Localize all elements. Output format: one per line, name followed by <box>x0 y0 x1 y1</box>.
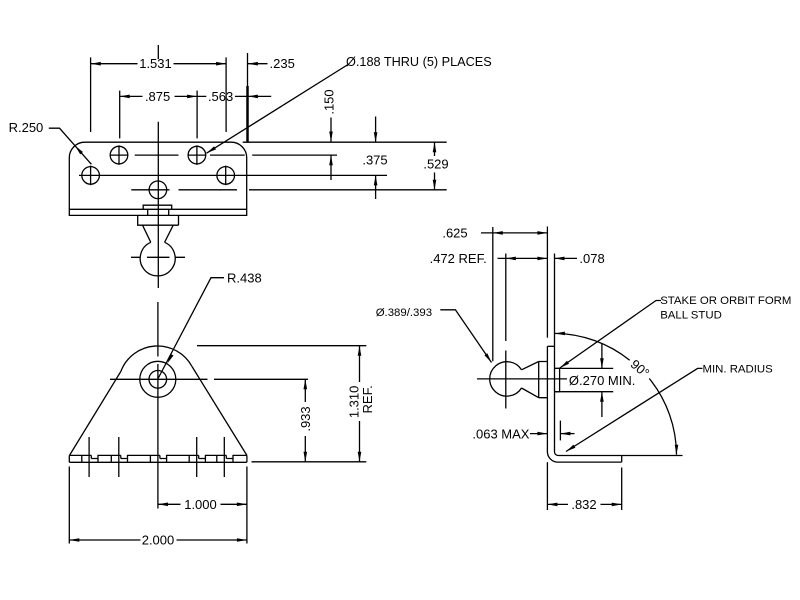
svg-text:Ø.270 MIN.: Ø.270 MIN. <box>569 373 635 388</box>
hole H1 vertical centerline <box>118 145 120 165</box>
arrow .875 right / .563 left <box>187 95 197 99</box>
arrow Ø.270 lower (up) <box>600 392 604 402</box>
svg-text:.529: .529 <box>423 157 448 172</box>
top-row extension line to .150 dimension (right of bracket) <box>210 154 337 156</box>
arrow 1.531 left <box>91 62 101 66</box>
ball horizontal centerline (dash-dot segments) <box>131 256 185 258</box>
front view main vertical centerline (also 1.000 extension) <box>157 302 159 509</box>
svg-text:.933: .933 <box>298 406 313 431</box>
svg-text:.563: .563 <box>208 89 233 104</box>
bottom-row extension line to .529 dimension <box>179 189 447 191</box>
hole H4 (mid row right) <box>217 167 235 185</box>
front view right slant edge <box>192 367 247 456</box>
hole H3 vertical centerline <box>90 166 92 186</box>
hole H5 horizontal centerline <box>131 189 169 191</box>
front view base plate <box>69 455 247 462</box>
svg-text:1.531: 1.531 <box>139 56 172 71</box>
L-bracket inner face (right) with bend <box>555 346 622 455</box>
dimension line .933 (vertical, text gap) <box>304 379 306 461</box>
Ø.270 upper extension line <box>555 367 614 369</box>
extension line bracket right edge (lower bold part) <box>246 86 249 142</box>
pivot hole horizontal centerline / .933 extension line <box>110 378 308 380</box>
arrow 90deg arc bottom (pointing down) <box>675 445 679 455</box>
svg-text:2.000: 2.000 <box>142 533 175 548</box>
slot S2 in base plate <box>111 455 127 462</box>
ball vertical centerline, side view <box>505 351 507 409</box>
extension line ball center (.472 REF) <box>505 254 507 342</box>
hole H1 horizontal centerline <box>110 154 129 156</box>
L-bracket outer face (left) with bend <box>547 346 621 462</box>
arrow .235 (outside, pointing left) <box>248 62 258 66</box>
slot S5 in base plate <box>217 455 233 462</box>
arrow .063 MAX right (pointing left at tick) <box>560 432 570 436</box>
arrow .375 upper (pointing down) <box>374 132 378 142</box>
svg-text:Ø.188 THRU (5) PLACES: Ø.188 THRU (5) PLACES <box>346 55 492 69</box>
hole centerline through slot 5 <box>223 437 225 477</box>
top view dimension texts <box>9 55 492 172</box>
arrow .933 top (up) <box>304 379 308 389</box>
svg-text:.063 MAX: .063 MAX <box>472 426 529 441</box>
arrow .933 bottom (down) <box>304 452 308 462</box>
arrow .063 MAX left (pointing right at plate) <box>537 432 547 436</box>
extension line from hole H4 up to 1.531/.235 dims <box>225 57 227 132</box>
slot S4 in base plate <box>189 455 205 462</box>
dimension line 1.531 <box>91 63 226 65</box>
leader line for Ø.389/.393 <box>440 310 491 363</box>
arrow of R.250 leader at corner radius <box>75 146 83 155</box>
ball horizontal centerline, side view <box>477 378 567 380</box>
arrow .875 left <box>120 95 130 99</box>
centerline stub above 1.531 dimension <box>157 45 159 59</box>
base bottom extension line (.933 / 1.310) <box>252 461 367 463</box>
Ø.270 dimension arrow tails <box>601 344 603 417</box>
leader line for .063 MAX <box>530 433 547 435</box>
svg-text:STAKE OR ORBIT FORM: STAKE OR ORBIT FORM <box>660 295 791 307</box>
hole H2 vertical centerline <box>196 145 198 165</box>
ball (sphere) of stud, top view fragment <box>140 242 175 276</box>
ball stud tapered neck cone, side view <box>522 362 539 398</box>
leader line for R.250 <box>49 128 92 164</box>
dimension line .832 (text gap) <box>547 503 621 505</box>
ball stud washer flange, side view <box>539 362 548 398</box>
arrow of Ø.389/.393 leader <box>484 353 491 362</box>
L-bracket top end cap <box>547 345 554 347</box>
arrow .529 top (pointing up) <box>433 142 437 152</box>
ball (sphere) of stud, side view <box>490 362 522 396</box>
leader line for R.438 <box>158 278 224 379</box>
front view left slant edge <box>70 372 121 456</box>
svg-text:R.438: R.438 <box>227 270 262 285</box>
dimension line .235 tail <box>248 63 268 65</box>
inner bottom face extension (for 90 deg angle dim) <box>622 455 683 457</box>
hole H5 (bottom center) <box>149 181 167 199</box>
.150 dimension arrow tails <box>330 118 332 181</box>
svg-text:.235: .235 <box>270 56 295 71</box>
arrow .150 upper (pointing down) <box>329 132 333 142</box>
dimension line .563 segments <box>197 95 271 97</box>
extension line plate outer face up (.625/.078) <box>546 227 548 338</box>
dimension line 2.000 (text gap) <box>69 539 247 541</box>
ball stud head (stub above flange, top view side fragment) <box>143 205 172 209</box>
svg-text:.078: .078 <box>579 251 604 266</box>
svg-text:.625: .625 <box>442 225 467 240</box>
arrow .832 right <box>612 503 622 507</box>
arrow .832 left <box>547 503 557 507</box>
dimension line .078 tail <box>555 257 578 259</box>
arrow 1.531 right <box>216 62 226 66</box>
arrow .472 left <box>506 257 516 261</box>
svg-text:.875: .875 <box>145 89 170 104</box>
extension line from bracket right edge up to .235/.563 dims (upper thin part) <box>247 53 249 86</box>
bracket top edge extension line to right (.150/.375/.529 dims) <box>243 141 447 143</box>
hole H3 (mid row left) <box>82 167 100 185</box>
hole H2 horizontal centerline <box>188 154 207 156</box>
.063 MAX tick line at bend <box>559 421 561 441</box>
extension lines below base for 2.000 <box>69 467 247 544</box>
.375 dimension arrow tails <box>375 117 377 200</box>
arrow .150 lower (pointing up) <box>329 155 333 165</box>
slot S1 in base plate <box>82 455 98 462</box>
svg-text:1.000: 1.000 <box>184 497 217 512</box>
arrow 2.000 right <box>237 538 247 542</box>
hole H2 (top row right) <box>188 146 206 164</box>
pivot hole outer boss circle <box>140 361 176 397</box>
extension line plate inner face up (.078) <box>554 254 556 347</box>
ball stud washer flange <box>138 215 179 225</box>
arrow 1.000 right <box>237 503 247 507</box>
svg-text:MIN. RADIUS: MIN. RADIUS <box>703 364 774 376</box>
arrow 2.000 left <box>69 538 79 542</box>
svg-text:.375: .375 <box>362 152 387 167</box>
hole centerline through slot 1 <box>88 437 90 477</box>
bracket body outline (top view, rounded top corners) <box>69 142 246 215</box>
svg-text:R.250: R.250 <box>9 120 44 135</box>
svg-text:Ø.389/.393: Ø.389/.393 <box>376 307 432 319</box>
hole H1 (top row left) <box>110 146 128 164</box>
ball stud tapered neck cone <box>143 225 174 242</box>
arrow 1.310 bottom (down) <box>358 452 362 462</box>
arrow of Ø.188 leader at hole H2 <box>207 146 217 153</box>
arrow .529 bottom (pointing down) <box>433 180 437 190</box>
svg-text:REF.: REF. <box>360 385 375 413</box>
hole H4 vertical centerline <box>225 166 227 186</box>
arrow Ø.270 upper (down) <box>600 358 604 368</box>
.063 MAX right arrow tail <box>560 433 574 435</box>
svg-text:.150: .150 <box>322 89 337 114</box>
arrow .472 right / .078 left <box>537 257 547 261</box>
slot S3 in base plate <box>150 455 166 462</box>
staked stud end through plate <box>555 368 560 391</box>
90 degree angle dimension arc (gap at text) <box>555 333 677 454</box>
leader line for MIN. RADIUS <box>566 368 703 451</box>
apex top extension line (1.310 REF) <box>197 345 366 347</box>
hole centerline through slot 2 <box>118 437 120 477</box>
extension line from hole H3 up to 1.531 dim <box>90 57 92 132</box>
arrow .563 right (outside, pointing left) <box>248 95 258 99</box>
arrow .625 right <box>537 231 547 235</box>
extension line ball left edge (.625) <box>492 227 494 361</box>
front view apex arc (R.438) <box>121 346 192 372</box>
arrow of STAKE leader <box>560 361 569 368</box>
ball stud shank through flange <box>148 209 169 215</box>
dimension line 1.000 (text gap) <box>158 503 247 505</box>
mid-row centerline / extension line through H3 and H4 to .375 dimension <box>79 174 387 176</box>
leader line for STAKE OR ORBIT FORM BALL STUD <box>560 301 661 369</box>
arrow .625 left <box>493 231 503 235</box>
arrow .078 right (outside, pointing left) <box>555 257 565 261</box>
extension line from hole H2 up to .875/.563 dims <box>196 91 198 139</box>
top-row centerline segment between H1 and H2 <box>135 154 179 156</box>
arrow 1.000 left <box>158 503 168 507</box>
pivot hole (Ø.188) <box>149 371 167 389</box>
arrow 90deg arc top (pointing left) <box>555 332 565 336</box>
main vertical centerline of top view <box>157 122 159 288</box>
leader line for Ø.188 THRU (5) PLACES <box>207 65 349 154</box>
arrow of R.438 leader <box>167 354 173 364</box>
dimension line 1.310 REF (vertical, text gap) <box>359 346 361 462</box>
dimension line .625 <box>481 232 547 234</box>
arrow .375 lower (pointing up) <box>374 175 378 185</box>
arrow of MIN. RADIUS leader <box>566 445 575 452</box>
svg-text:.832: .832 <box>571 497 596 512</box>
svg-text:BALL STUD: BALL STUD <box>660 310 722 322</box>
extension line from hole H1 up to .875 dim <box>119 91 121 139</box>
dimension line .875 <box>120 95 197 97</box>
.529 dimension line (arrows inside, text gap) <box>434 142 436 190</box>
svg-text:.472 REF.: .472 REF. <box>430 251 487 266</box>
bracket bent-flange edge line (top view bottom) <box>69 208 246 210</box>
hole centerline through slot 4 <box>196 437 198 477</box>
L-bracket bottom end cap <box>621 456 623 463</box>
arrowheads, filled <box>75 62 436 190</box>
arrow 1.310 top (up) <box>358 346 362 356</box>
dimension line .472 REF <box>498 257 548 259</box>
extension lines below bend for .832 <box>547 462 621 510</box>
Ø.270 lower extension line <box>555 391 614 393</box>
